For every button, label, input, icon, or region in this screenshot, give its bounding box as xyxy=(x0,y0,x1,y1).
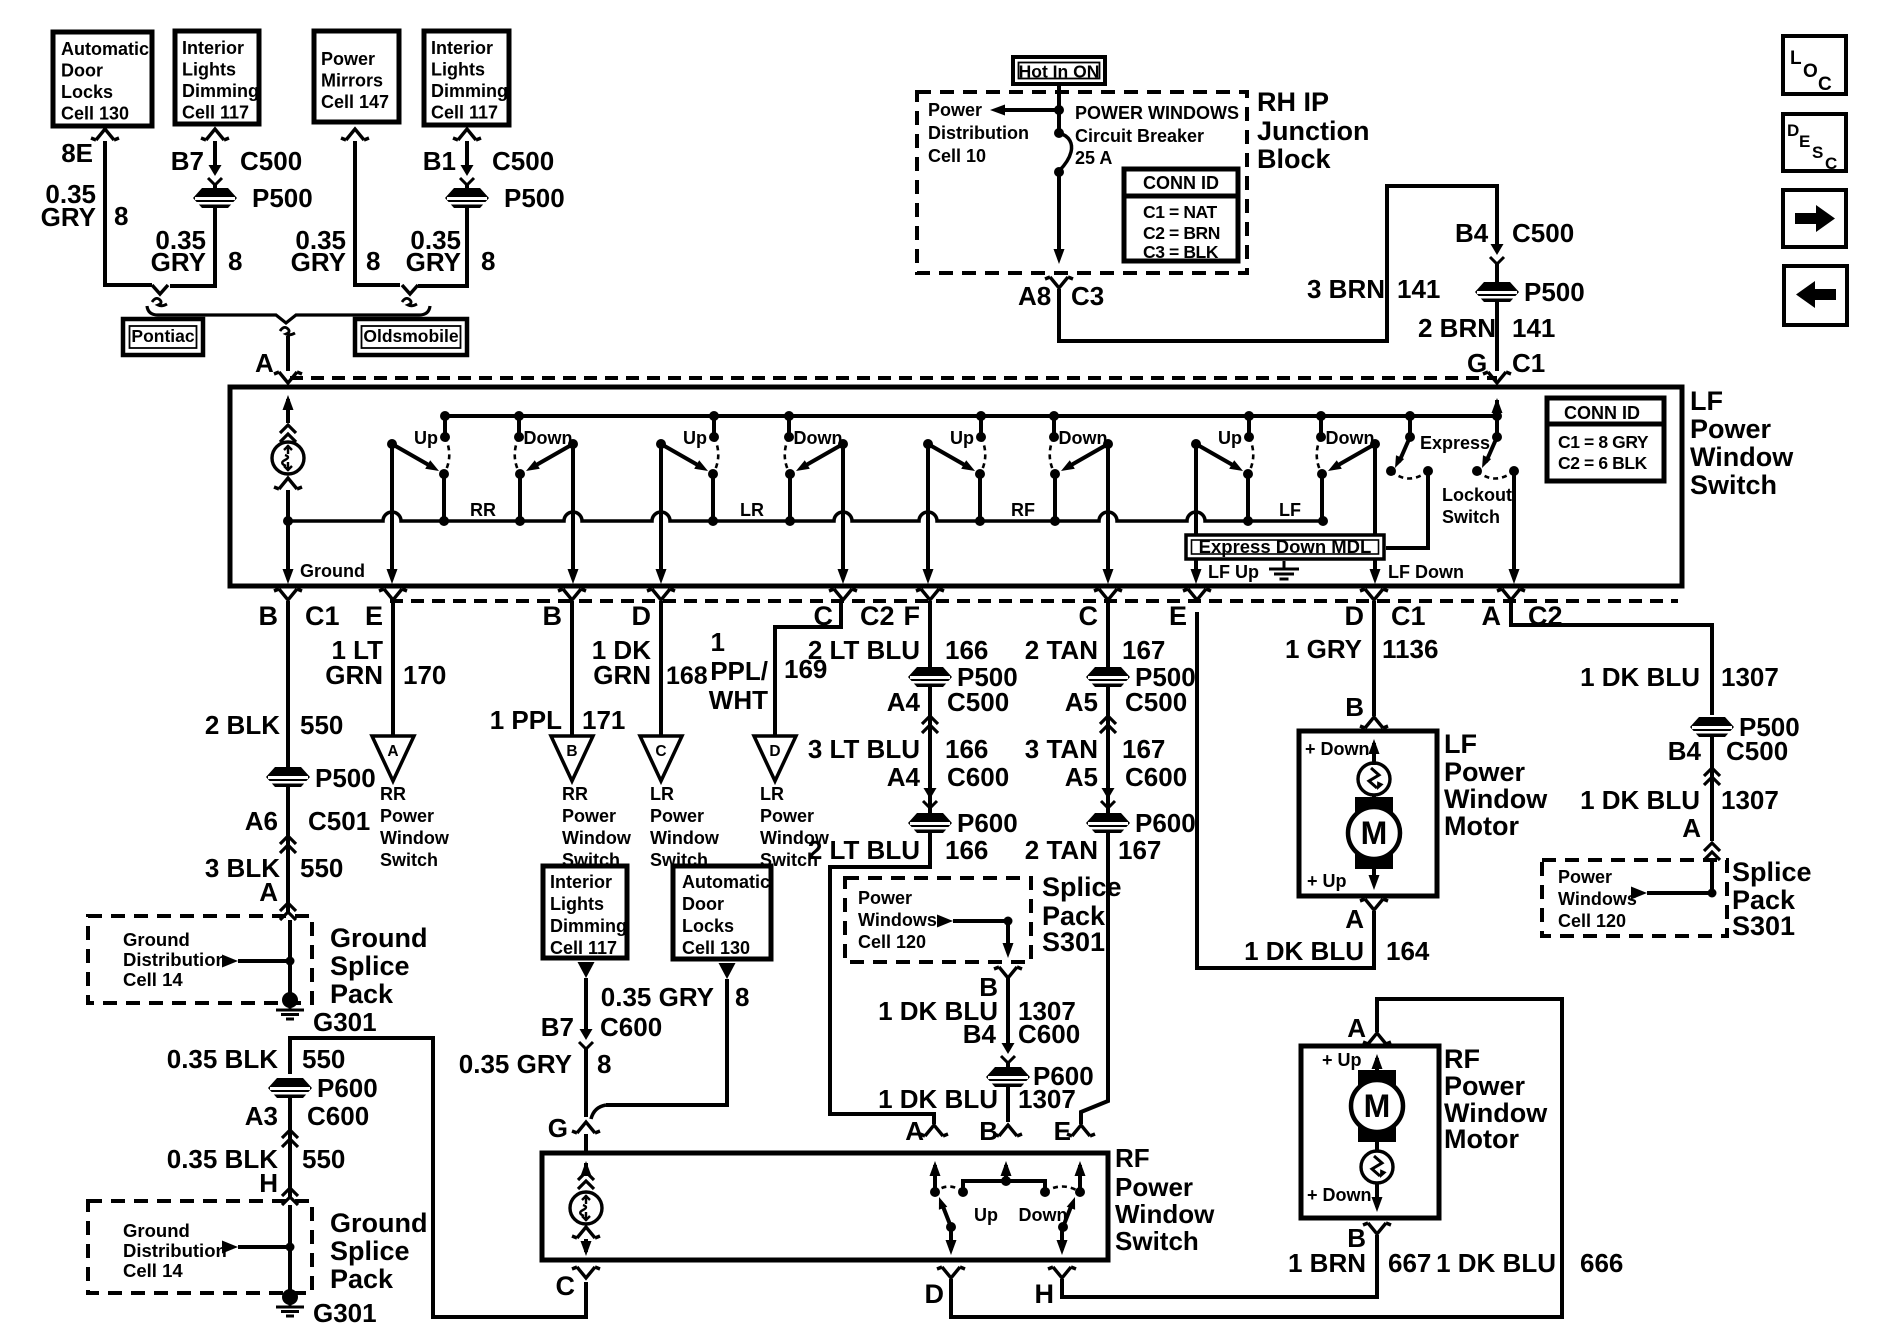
svg-text:D: D xyxy=(632,601,652,631)
svg-text:M: M xyxy=(1364,1088,1391,1124)
motor up arrow xyxy=(1372,743,1376,765)
ground bus end dot at LF down contact xyxy=(1318,516,1328,526)
svg-text:550: 550 xyxy=(302,1044,345,1074)
switch RR Down contact xyxy=(517,416,521,437)
splice joint curl (right pair) xyxy=(402,285,418,294)
svg-text:P500: P500 xyxy=(504,183,565,213)
wire 0.35 GRY 8 from door locks to G xyxy=(606,979,727,1105)
svg-text:LF: LF xyxy=(1444,729,1477,759)
RF switch dashed arcs xyxy=(935,1187,1080,1193)
table: CONN ID (junction block) xyxy=(1124,169,1238,261)
svg-text:O: O xyxy=(1803,61,1818,82)
triangle connector B xyxy=(551,736,593,781)
svg-text:Pack: Pack xyxy=(330,979,394,1009)
svg-text:C600: C600 xyxy=(600,1012,662,1042)
switch LR Up output wire xyxy=(659,444,663,578)
connector fork A below LF motor xyxy=(1360,899,1388,910)
svg-text:Window: Window xyxy=(562,828,632,848)
svg-text:Motor: Motor xyxy=(1444,1124,1519,1154)
svg-text:Window: Window xyxy=(1690,442,1794,472)
svg-text:S301: S301 xyxy=(1732,911,1795,941)
earth ground under express module xyxy=(1269,561,1299,579)
svg-text:P500: P500 xyxy=(252,183,313,213)
svg-text:Power: Power xyxy=(380,806,434,826)
svg-text:2 LT BLU: 2 LT BLU xyxy=(808,635,920,665)
svg-text:C500: C500 xyxy=(1125,687,1187,717)
svg-text:A5: A5 xyxy=(1065,687,1098,717)
svg-text:3 TAN: 3 TAN xyxy=(1025,734,1098,764)
dashed box: RH IP Junction Block xyxy=(917,92,1247,273)
connector pin H (RF switch) xyxy=(1048,1267,1076,1278)
svg-text:8: 8 xyxy=(481,246,495,276)
svg-text:C3: C3 xyxy=(1071,281,1104,311)
svg-text:Cell 147: Cell 147 xyxy=(321,92,389,112)
splice P600 (TAN) xyxy=(1086,813,1130,833)
svg-text:S: S xyxy=(1812,143,1823,162)
svg-text:LF: LF xyxy=(1279,500,1301,520)
svg-text:1 DK BLU: 1 DK BLU xyxy=(1436,1248,1556,1278)
box: LF Power Window Motor xyxy=(1299,731,1437,896)
triangle connector A xyxy=(372,736,414,781)
svg-text:RF: RF xyxy=(1115,1143,1150,1173)
arrow to power distribution xyxy=(1002,108,1059,112)
svg-text:E: E xyxy=(1169,601,1187,631)
box: LF Power Window Switch xyxy=(230,387,1682,586)
svg-text:G301: G301 xyxy=(313,1007,377,1037)
svg-text:Up: Up xyxy=(950,428,974,448)
svg-text:C2 = BRN: C2 = BRN xyxy=(1143,223,1220,243)
svg-text:Locks: Locks xyxy=(682,916,734,936)
svg-text:Splice: Splice xyxy=(330,1236,410,1266)
svg-text:Window: Window xyxy=(650,828,720,848)
svg-text:GRY: GRY xyxy=(41,202,96,232)
ground G301 (1) xyxy=(282,992,298,1008)
svg-text:Power: Power xyxy=(1558,867,1612,887)
svg-text:Junction: Junction xyxy=(1257,116,1370,146)
svg-text:Oldsmobile: Oldsmobile xyxy=(363,326,459,346)
svg-text:A4: A4 xyxy=(887,687,921,717)
svg-text:GRY: GRY xyxy=(291,247,346,277)
connector pin A C2 xyxy=(1497,589,1525,600)
splice P500 (TAN) xyxy=(1086,667,1130,687)
svg-text:C3 = BLK: C3 = BLK xyxy=(1143,242,1219,262)
thermal breaker symbol (RF motor) xyxy=(1375,1142,1379,1151)
icon box LOC xyxy=(1783,36,1846,94)
svg-text:A5: A5 xyxy=(1065,762,1098,792)
svg-text:+ Down: + Down xyxy=(1307,1185,1372,1205)
svg-text:Ground: Ground xyxy=(300,561,365,581)
svg-text:C2 = 6 BLK: C2 = 6 BLK xyxy=(1558,453,1648,473)
switch LF Down output wire xyxy=(1373,444,1377,578)
svg-text:Switch: Switch xyxy=(380,850,438,870)
connector pin E xyxy=(1183,589,1211,600)
svg-text:B7: B7 xyxy=(171,146,204,176)
box: RF Power Window Motor xyxy=(1301,1046,1439,1218)
svg-text:Automatic: Automatic xyxy=(682,872,770,892)
connector fork under Power Mirrors box xyxy=(341,129,369,140)
wire lockout contact to pin A xyxy=(1512,471,1516,578)
arrow power windows feed 1 xyxy=(937,915,953,928)
triangle connector D xyxy=(754,736,796,781)
svg-text:H: H xyxy=(259,1168,278,1198)
svg-text:Door: Door xyxy=(61,61,103,81)
svg-text:550: 550 xyxy=(300,853,343,883)
connector fork B into LF motor xyxy=(1360,717,1388,728)
box: Pontiac xyxy=(123,319,203,355)
svg-text:Down: Down xyxy=(524,428,573,448)
svg-text:1 DK BLU: 1 DK BLU xyxy=(1244,936,1364,966)
wire 1 DK BLU 1307 (lower) xyxy=(1710,737,1714,841)
svg-text:167: 167 xyxy=(1122,734,1165,764)
wire 1 PPL/WHT 169 xyxy=(775,601,841,736)
svg-text:C500: C500 xyxy=(947,687,1009,717)
svg-text:Power: Power xyxy=(1444,1071,1526,1101)
svg-text:G301: G301 xyxy=(313,1298,377,1328)
svg-text:D: D xyxy=(1787,121,1799,140)
switch Lockout xyxy=(1492,411,1502,421)
svg-text:E: E xyxy=(1799,132,1810,151)
wire from RF switch pin C to second splice pack xyxy=(290,1038,586,1317)
box: Express Down MDL xyxy=(1186,535,1384,559)
svg-text:LF: LF xyxy=(1690,386,1723,416)
connector C600 down (TAN) xyxy=(1102,788,1115,799)
connector C600 (B7) xyxy=(580,1029,593,1040)
icon box DESC xyxy=(1783,114,1846,171)
wire inside splice pack 2 xyxy=(288,1205,292,1291)
svg-text:Distribution: Distribution xyxy=(123,1240,227,1261)
svg-text:170: 170 xyxy=(403,660,446,690)
svg-text:A4: A4 xyxy=(887,762,921,792)
arrow power windows feed 2 xyxy=(1631,887,1647,900)
box: Hot In ON xyxy=(1013,57,1105,84)
wire from power mirrors box xyxy=(355,141,400,285)
svg-text:Interior: Interior xyxy=(182,38,244,58)
svg-text:Dimming: Dimming xyxy=(550,916,627,936)
svg-text:A: A xyxy=(387,743,398,760)
connector into S301-2 xyxy=(1704,843,1720,860)
svg-text:Cell 117: Cell 117 xyxy=(550,938,617,958)
svg-text:C1: C1 xyxy=(1512,348,1545,378)
connector fork under Interior Lights box xyxy=(201,129,229,140)
svg-text:A: A xyxy=(1347,1013,1366,1043)
splice P600 (LT BLU) xyxy=(908,813,952,833)
svg-text:POWER WINDOWS: POWER WINDOWS xyxy=(1075,103,1239,123)
svg-text:D: D xyxy=(1345,601,1365,631)
svg-text:Cell 120: Cell 120 xyxy=(858,932,926,952)
svg-text:2 TAN: 2 TAN xyxy=(1025,635,1098,665)
icon box left arrow xyxy=(1784,266,1847,325)
connector fork G into RF switch xyxy=(572,1122,600,1133)
svg-text:B4: B4 xyxy=(963,1019,997,1049)
svg-text:RH IP: RH IP xyxy=(1257,87,1329,117)
connector pin D (RF switch) xyxy=(937,1267,965,1278)
splice P600 (0.35 BLK) xyxy=(268,1078,312,1098)
svg-text:C600: C600 xyxy=(947,762,1009,792)
switch RR Up output wire xyxy=(390,444,394,578)
svg-text:+ Up: + Up xyxy=(1322,1050,1362,1070)
svg-text:GRY: GRY xyxy=(406,247,461,277)
connector C600 (B4) xyxy=(1002,1043,1015,1054)
svg-text:Windows: Windows xyxy=(858,910,937,930)
svg-text:C: C xyxy=(556,1271,576,1301)
svg-text:P600: P600 xyxy=(957,808,1018,838)
svg-text:Block: Block xyxy=(1257,144,1332,174)
connector fork G C1 xyxy=(1483,372,1511,383)
svg-text:8E: 8E xyxy=(61,138,93,168)
motor M (RF) xyxy=(1358,1070,1396,1085)
RF switch common bar xyxy=(963,1181,1045,1192)
svg-text:P600: P600 xyxy=(317,1073,378,1103)
svg-text:1307: 1307 xyxy=(1721,785,1779,815)
switch RR Down output wire xyxy=(571,444,575,578)
wire A8 C3 to B4 C500 xyxy=(1059,186,1497,341)
svg-text:B: B xyxy=(566,743,577,760)
svg-text:RF: RF xyxy=(1444,1044,1480,1074)
svg-text:Pack: Pack xyxy=(330,1264,394,1294)
svg-text:P500: P500 xyxy=(1524,277,1585,307)
arrow out of interior lights box xyxy=(578,962,595,978)
svg-text:H: H xyxy=(1035,1279,1055,1309)
svg-text:3 LT BLU: 3 LT BLU xyxy=(808,734,920,764)
wire from Hot In ON into block xyxy=(1057,84,1061,132)
svg-text:Switch: Switch xyxy=(1442,507,1500,527)
svg-text:Interior: Interior xyxy=(431,38,493,58)
RF motor up arrow xyxy=(1375,1058,1379,1085)
brace joining feed wires xyxy=(147,306,430,323)
wire into splice P500 xyxy=(170,185,215,286)
wire express contact to express down module xyxy=(1386,471,1428,548)
dashed box: Ground Splice Pack 1 xyxy=(88,916,312,1003)
connector pin C C2 xyxy=(829,589,857,600)
wire 2 TAN 167 xyxy=(1106,601,1110,667)
svg-text:Cell 10: Cell 10 xyxy=(928,146,986,166)
connector fork under Automatic Door Locks box xyxy=(91,129,119,140)
svg-text:1 DK BLU: 1 DK BLU xyxy=(1580,662,1700,692)
svg-text:Hot In ON: Hot In ON xyxy=(1019,62,1100,82)
connector fork A8 C3 xyxy=(1045,277,1073,288)
wire splice S301-1 down xyxy=(1006,921,1010,950)
svg-text:550: 550 xyxy=(300,710,343,740)
svg-text:Cell 14: Cell 14 xyxy=(123,1260,183,1281)
svg-text:Splice: Splice xyxy=(330,951,410,981)
svg-text:CONN ID: CONN ID xyxy=(1564,403,1640,423)
svg-text:1 DK BLU: 1 DK BLU xyxy=(878,1084,998,1114)
svg-text:L: L xyxy=(1790,48,1802,69)
svg-text:B: B xyxy=(259,601,279,631)
wire 2 LT BLU 166 xyxy=(928,601,932,667)
arrow out of automatic door locks box xyxy=(719,963,736,979)
svg-text:C600: C600 xyxy=(307,1101,369,1131)
icon box right arrow xyxy=(1783,190,1846,247)
svg-text:M: M xyxy=(1361,815,1388,851)
RF switch B riser xyxy=(1004,1165,1008,1181)
svg-text:0.35 GRY: 0.35 GRY xyxy=(601,982,714,1012)
ground bus inside switch xyxy=(288,512,1323,521)
svg-text:Dimming: Dimming xyxy=(182,81,259,101)
svg-text:C2: C2 xyxy=(860,601,895,631)
connector C500 up (TAN) xyxy=(1100,716,1116,733)
svg-text:S301: S301 xyxy=(1042,927,1105,957)
switch LR Down contact xyxy=(787,416,791,437)
svg-text:Ground: Ground xyxy=(330,923,427,953)
svg-text:Up: Up xyxy=(974,1205,998,1225)
wire B7 C600 0.35 GRY 8 xyxy=(584,978,588,1030)
svg-text:Switch: Switch xyxy=(1115,1226,1199,1256)
switch LF Up contact xyxy=(1247,416,1251,437)
svg-text:1 GRY: 1 GRY xyxy=(1285,634,1362,664)
connector pin C (RF switch) xyxy=(572,1267,600,1278)
connector fork into RF pin B xyxy=(994,1125,1022,1136)
dashed connector line C1 (top) xyxy=(290,376,1497,380)
wire 1 DK BLU 1307 (B4 C600) xyxy=(1006,978,1010,1045)
svg-text:B: B xyxy=(1345,692,1364,722)
motor down arrow xyxy=(1372,869,1376,884)
svg-text:2 LT BLU: 2 LT BLU xyxy=(808,835,920,865)
switch LF Up output wire xyxy=(1194,444,1198,578)
wire 0.35 GRY 8 to G xyxy=(584,1049,588,1117)
svg-text:WHT: WHT xyxy=(709,685,768,715)
svg-text:+ Down: + Down xyxy=(1305,739,1370,759)
wire 1 DK BLU 164 xyxy=(1197,612,1374,968)
svg-text:A: A xyxy=(1345,904,1364,934)
motor M (LF) xyxy=(1372,795,1376,800)
box: Power Mirrors Cell 147 xyxy=(314,31,399,122)
svg-text:CONN ID: CONN ID xyxy=(1143,173,1219,193)
connector pin B C1 xyxy=(274,589,302,600)
switch RF Up output wire xyxy=(926,444,930,578)
RF switch contact E riser xyxy=(1075,1187,1085,1197)
dashed box: Power Windows Cell 120 (S301-2) xyxy=(1542,860,1727,936)
RF motor down arrow xyxy=(1375,1183,1379,1207)
svg-text:Windows: Windows xyxy=(1558,889,1637,909)
svg-text:RR: RR xyxy=(380,784,406,804)
connector pin F xyxy=(916,589,944,600)
box: Interior Lights Dimming Cell 117 (middle) xyxy=(543,866,627,958)
svg-text:LR: LR xyxy=(740,500,764,520)
svg-text:Up: Up xyxy=(414,428,438,448)
switch LR Down output wire xyxy=(841,444,845,578)
svg-text:8: 8 xyxy=(228,246,242,276)
wire 0.35 BLK 550 (lower) xyxy=(288,1098,292,1199)
svg-text:8: 8 xyxy=(366,246,380,276)
svg-text:141: 141 xyxy=(1397,274,1440,304)
svg-text:0.35 GRY: 0.35 GRY xyxy=(459,1049,572,1079)
svg-text:C: C xyxy=(1825,154,1837,173)
connector C500 (B7) xyxy=(209,165,222,176)
svg-text:PPL/: PPL/ xyxy=(710,656,768,686)
svg-text:LF Up: LF Up xyxy=(1208,562,1259,582)
connector C500 up xyxy=(922,716,938,733)
wire 2 LT BLU to RF switch pin A xyxy=(830,833,934,1124)
svg-text:Down: Down xyxy=(794,428,843,448)
connector pin B xyxy=(558,589,586,600)
svg-text:A: A xyxy=(905,1116,924,1146)
wire 3 TAN 167 xyxy=(1106,687,1110,813)
svg-text:Power: Power xyxy=(1444,757,1526,787)
svg-text:1 DK BLU: 1 DK BLU xyxy=(1580,785,1700,815)
RF switch Up toggle xyxy=(946,1222,956,1232)
svg-text:Motor: Motor xyxy=(1444,811,1519,841)
splice P500 (LT BLU) xyxy=(908,667,952,687)
svg-text:Power: Power xyxy=(562,806,616,826)
feed arrow from G C1 into switch xyxy=(1495,400,1499,416)
wire inside splice pack 1 xyxy=(288,920,292,994)
connector fork A into switch connector xyxy=(274,372,302,383)
wire S301-2 internal xyxy=(1710,862,1714,893)
svg-text:Mirrors: Mirrors xyxy=(321,71,383,91)
svg-text:550: 550 xyxy=(302,1144,345,1174)
svg-text:E: E xyxy=(1054,1116,1071,1146)
splice P500 (2 BLK) xyxy=(266,767,310,787)
svg-text:A6: A6 xyxy=(245,806,278,836)
svg-text:F: F xyxy=(904,601,921,631)
switch RR Up contact xyxy=(443,416,447,437)
wire: B1 to C500 xyxy=(465,141,469,166)
wire 1 BRN 667 pin H to RF motor B xyxy=(1062,1235,1377,1297)
svg-text:1136: 1136 xyxy=(1382,634,1438,664)
splice P500 (right) xyxy=(445,188,489,208)
svg-text:B4: B4 xyxy=(1668,736,1702,766)
connector into ground splice pack 2 xyxy=(282,1188,298,1205)
svg-text:Cell 14: Cell 14 xyxy=(123,969,183,990)
svg-text:Distribution: Distribution xyxy=(928,123,1029,143)
svg-text:G: G xyxy=(548,1113,568,1143)
box: RF Power Window Switch xyxy=(542,1153,1108,1260)
splice P500 (1307) xyxy=(1690,717,1734,737)
svg-text:Door: Door xyxy=(682,894,724,914)
connector fork into RF pin A xyxy=(920,1125,948,1136)
svg-text:8: 8 xyxy=(114,201,128,231)
wire 2 BLK 550 xyxy=(286,601,290,767)
svg-text:Power: Power xyxy=(650,806,704,826)
svg-text:Lights: Lights xyxy=(550,894,604,914)
svg-text:1307: 1307 xyxy=(1018,1084,1076,1114)
svg-text:Power: Power xyxy=(1690,414,1772,444)
box: Automatic Door Locks Cell 130 (top) xyxy=(53,32,152,126)
svg-text:Down: Down xyxy=(1019,1205,1068,1225)
svg-text:A: A xyxy=(259,877,278,907)
svg-text:8: 8 xyxy=(597,1049,611,1079)
svg-text:D: D xyxy=(769,743,780,760)
connector into ground splice pack xyxy=(280,903,296,920)
svg-text:2 BLK: 2 BLK xyxy=(205,710,280,740)
connector pin D C1 xyxy=(1360,589,1388,600)
connector pin E xyxy=(379,589,407,600)
splice P500 (left) xyxy=(193,188,237,208)
svg-text:B4: B4 xyxy=(1455,218,1489,248)
svg-text:667: 667 xyxy=(1388,1248,1431,1278)
svg-text:C500: C500 xyxy=(240,146,302,176)
switch LF Down contact xyxy=(1319,416,1323,437)
switch RF Down output wire xyxy=(1106,444,1110,578)
svg-text:Up: Up xyxy=(683,428,707,448)
svg-text:Cell 117: Cell 117 xyxy=(182,103,249,123)
svg-text:B: B xyxy=(543,601,563,631)
connector fork into RF pin E xyxy=(1067,1125,1095,1136)
connector C500 up (1307) xyxy=(1704,768,1720,785)
svg-text:Cell 130: Cell 130 xyxy=(61,104,129,124)
svg-text:Interior: Interior xyxy=(550,872,612,892)
top bus of switch xyxy=(445,414,1497,418)
dashed box: Power Windows Cell 120 (S301-1) xyxy=(845,878,1031,962)
arrow ground distribution 2 xyxy=(222,1241,238,1254)
svg-text:C500: C500 xyxy=(1726,736,1788,766)
svg-text:C1: C1 xyxy=(1391,601,1426,631)
svg-text:Power: Power xyxy=(760,806,814,826)
box: Oldsmobile xyxy=(355,319,467,355)
svg-text:A: A xyxy=(1682,813,1701,843)
arrow ground distribution 1 xyxy=(222,955,238,968)
